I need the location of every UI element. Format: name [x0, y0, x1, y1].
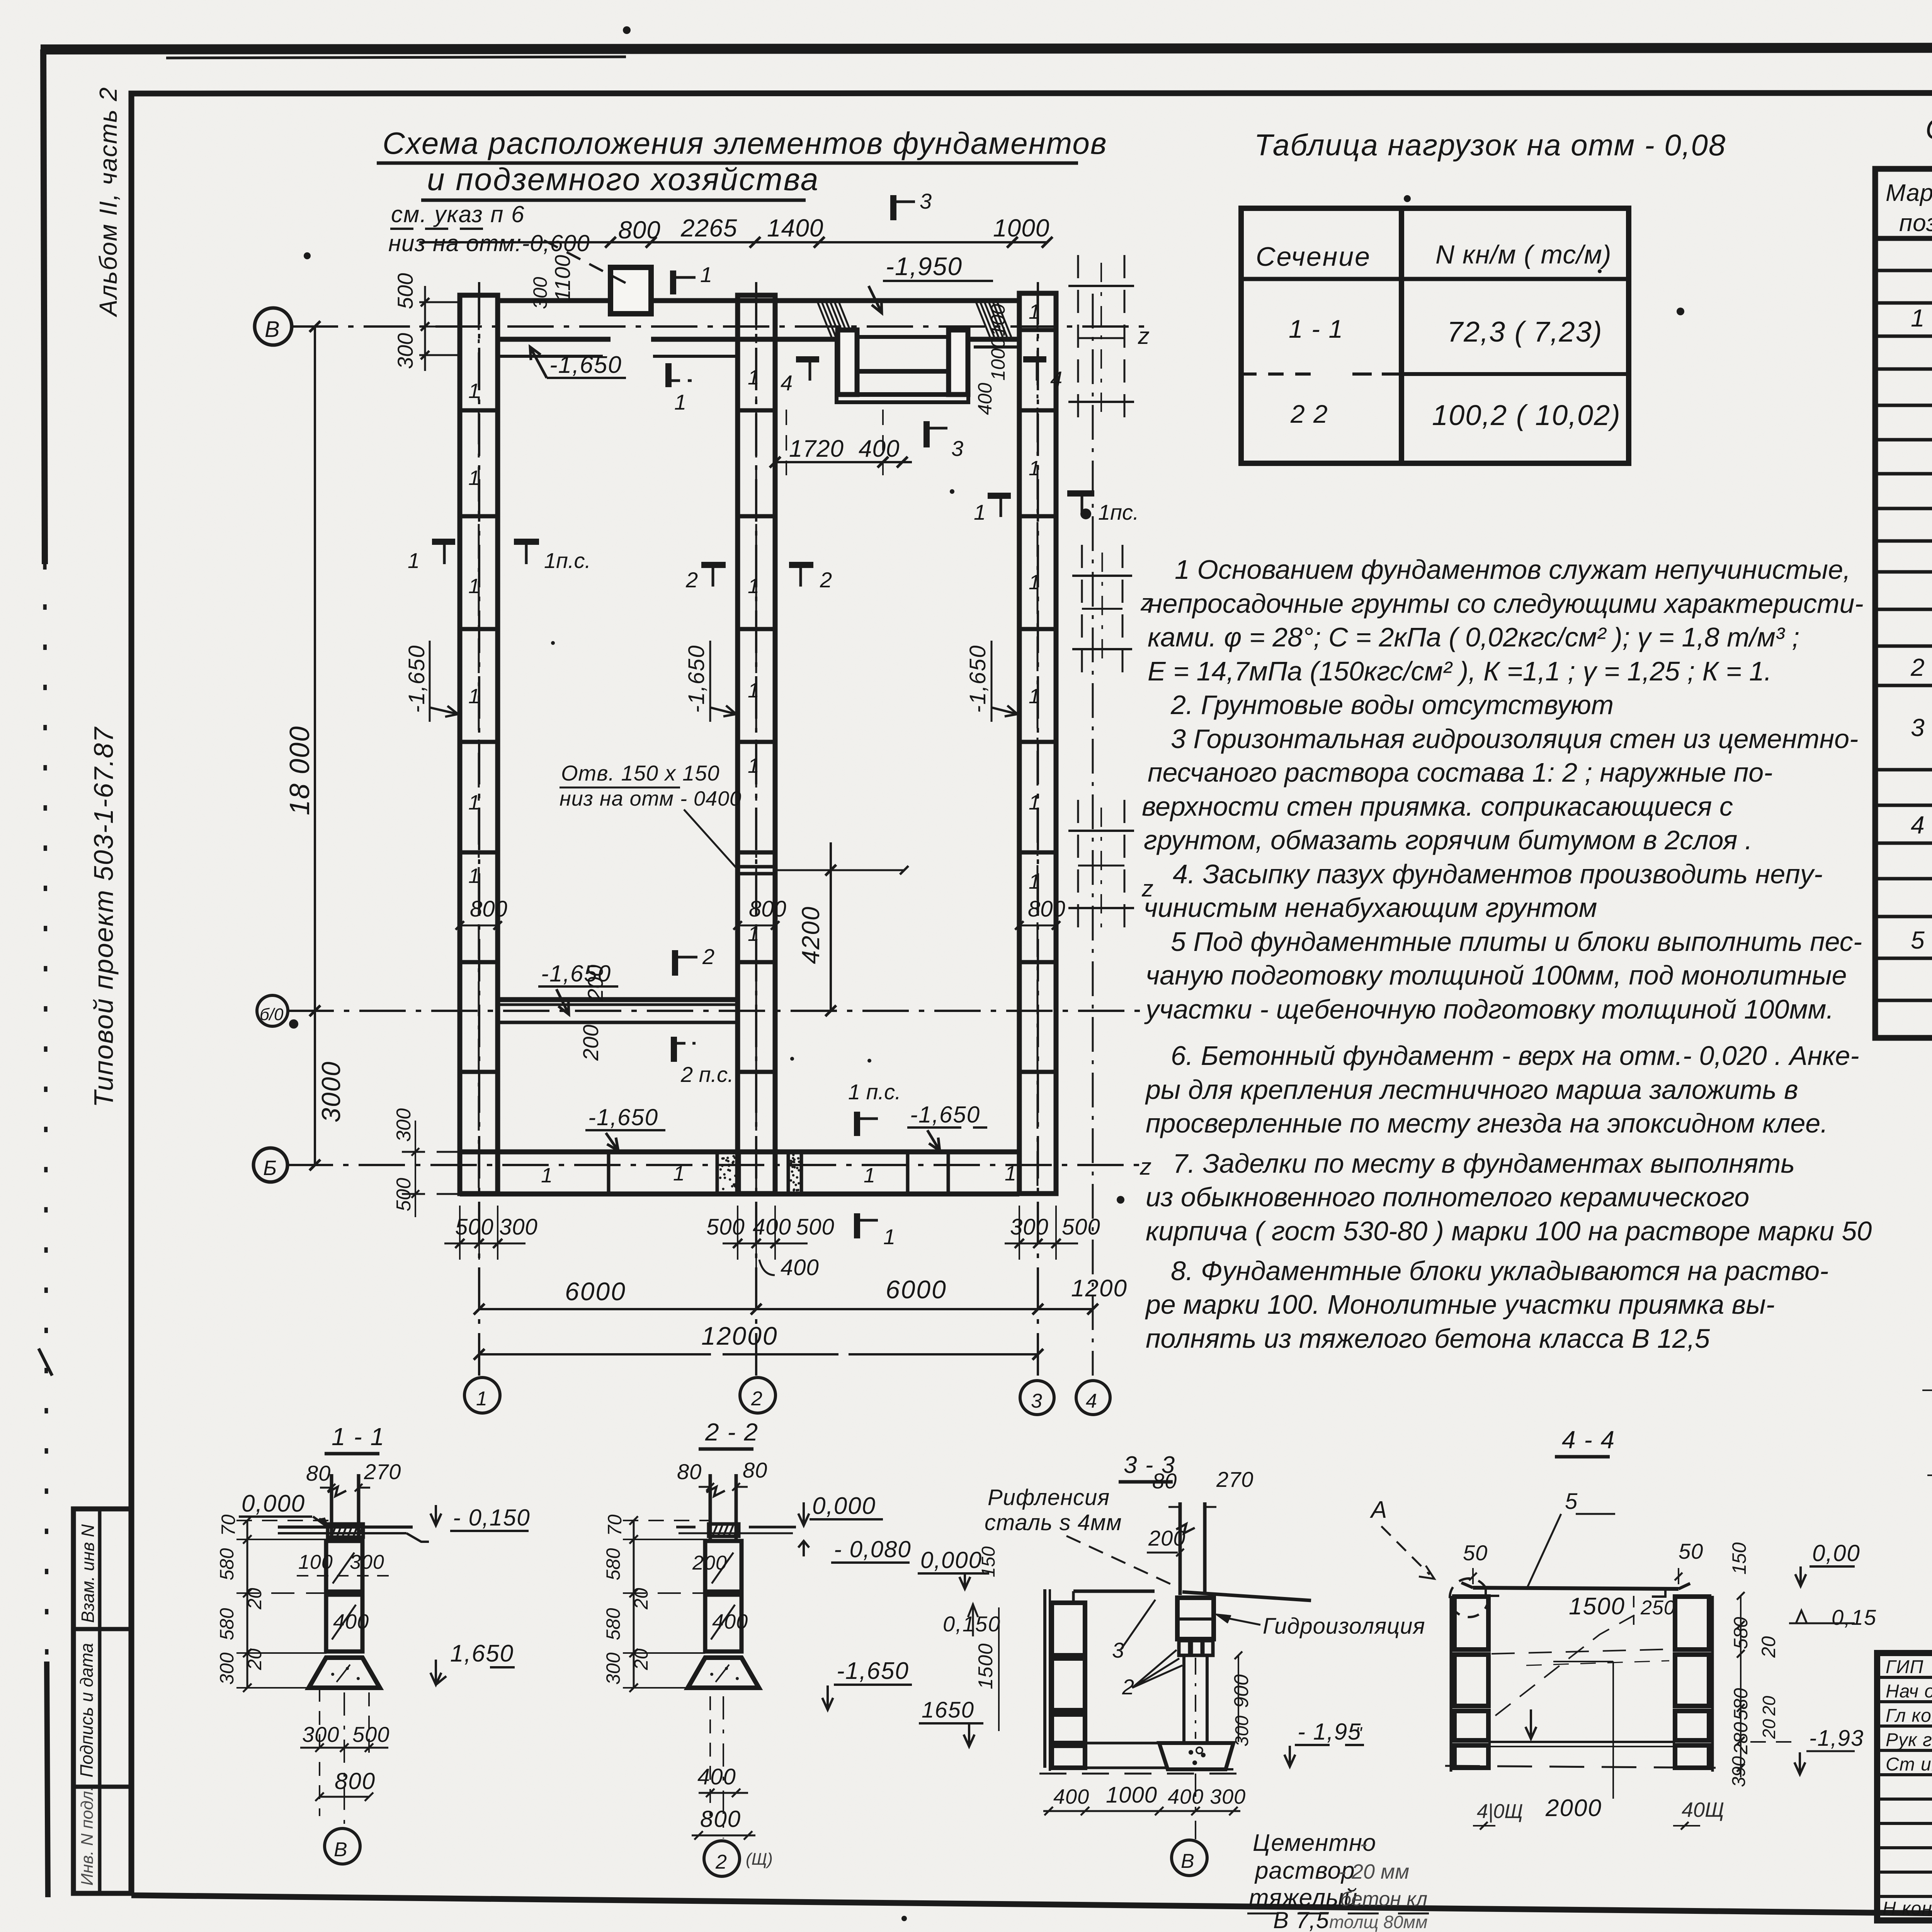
top dimension chain: [419, 237, 1053, 248]
svg-text:1: 1: [1005, 1162, 1016, 1185]
svg-text:1: 1: [541, 1164, 553, 1187]
svg-text:Подпись и дата: Подпись и дата: [77, 1643, 97, 1777]
svg-text:20: 20: [1759, 1719, 1779, 1739]
svg-text:1: 1: [1911, 304, 1925, 332]
svg-text:1: 1: [864, 1164, 875, 1187]
axis circle 3: [1020, 1381, 1054, 1415]
wall foundation strip axis 2: [738, 295, 775, 1194]
section 3-3 right pier blocks: [1177, 1598, 1214, 1639]
svg-text:3000: 3000: [316, 1061, 346, 1122]
svg-text:300: 300: [302, 1722, 339, 1747]
svg-text:500: 500: [455, 1214, 494, 1240]
svg-text:1,650: 1,650: [450, 1640, 514, 1667]
axis circle Б: [253, 1148, 287, 1182]
svg-text:1 п.с.: 1 п.с.: [848, 1080, 901, 1104]
svg-text:40Щ: 40Щ: [1682, 1798, 1724, 1821]
axis line Б: [287, 1164, 1144, 1166]
svg-text:толщ 80мм: толщ 80мм: [1329, 1912, 1427, 1932]
section 1-1 left dim stack: [236, 1516, 332, 1692]
svg-text:1: 1: [1029, 571, 1040, 594]
flag 2пс at b0: [671, 1037, 677, 1062]
hatch left of pit: [818, 302, 853, 337]
section 2-2 axis circle 2: [723, 1696, 724, 1838]
section flag 1 left pair: [432, 539, 455, 545]
svg-text:6. Бетонный фундамент - верх: 6. Бетонный фундамент - верх на отм.- 0,…: [1171, 1041, 1859, 1071]
middle band at axis б/0: [498, 1000, 738, 1022]
svg-text:1: 1: [468, 466, 480, 490]
section 3-3 axis circle В: [1195, 1774, 1196, 1839]
bottom wall band axis Б: [460, 1152, 1019, 1194]
section 3-3 bottom slab lines: [1049, 1742, 1159, 1745]
svg-text:1200: 1200: [1071, 1275, 1128, 1302]
svg-text:72,3 ( 7,23): 72,3 ( 7,23): [1447, 316, 1602, 348]
svg-text:300: 300: [216, 1652, 238, 1685]
svg-text:1: 1: [748, 679, 759, 702]
dim line 6000/6000/1200: [474, 1304, 1098, 1315]
hatch right of pit: [976, 302, 1011, 337]
svg-text:2 2: 2 2: [1290, 400, 1328, 428]
section flag 1 mid-right: [988, 493, 1011, 499]
svg-text:1650: 1650: [922, 1697, 975, 1723]
svg-text:70: 70: [218, 1514, 239, 1536]
title block signatures: [1886, 1656, 1932, 1775]
svg-text:-1,650: -1,650: [541, 961, 611, 986]
vertical dim line 18000/3000: [314, 327, 316, 1165]
svg-text:400 300: 400 300: [1168, 1785, 1246, 1808]
svg-text:200: 200: [692, 1552, 727, 1574]
dim chain under strip 2: [723, 1206, 808, 1306]
svg-text:2 п.с.: 2 п.с.: [680, 1062, 734, 1087]
svg-text:Спецификация к схеме распол: Спецификация к схеме расположения элемен…: [1925, 113, 1932, 146]
svg-text:полнять из тяжелого бетона: полнять из тяжелого бетона класса В 12,5: [1146, 1323, 1710, 1354]
svg-text:Инв. N подл.: Инв. N подл.: [78, 1786, 97, 1886]
svg-text:В: В: [265, 317, 280, 342]
dim 500/300 left of strip top: [419, 286, 460, 371]
svg-text:бетон кл: бетон кл: [1340, 1888, 1427, 1910]
svg-text:z: z: [1140, 590, 1152, 616]
svg-text:800: 800: [470, 896, 507, 922]
svg-text:-1,650: -1,650: [910, 1102, 980, 1128]
svg-text:400: 400: [1053, 1785, 1089, 1808]
section 2-2 column: [709, 1474, 712, 1540]
svg-text:Марка,: Марка,: [1886, 180, 1932, 206]
svg-text:4: 4: [1050, 367, 1062, 391]
svg-text:В: В: [1181, 1850, 1194, 1872]
svg-text:150: 150: [1728, 1542, 1750, 1575]
svg-text:400: 400: [859, 435, 900, 462]
svg-text:3: 3: [1112, 1638, 1124, 1662]
section 3-3 left wall: [1043, 1589, 1046, 1768]
svg-text:200: 200: [578, 1025, 603, 1061]
svg-text:-1,93: -1,93: [1809, 1726, 1864, 1751]
section 4-4 floor at -1,930: [1488, 1741, 1675, 1743]
svg-text:800: 800: [618, 216, 661, 244]
svg-text:N кн/м ( тс/м): N кн/м ( тс/м): [1435, 240, 1612, 269]
section 3-3 footing: [1159, 1743, 1233, 1769]
svg-text:1: 1: [408, 548, 420, 573]
section 1-1 floor ledge: [278, 1526, 413, 1529]
svg-text:-1,650: -1,650: [965, 645, 990, 713]
svg-text:Ст инж: Ст инж: [1886, 1754, 1932, 1775]
svg-text:см. указ п 6: см. указ п 6: [391, 201, 525, 227]
stray mark lower-left margin: [39, 1349, 52, 1376]
svg-text:50: 50: [1679, 1539, 1703, 1563]
svg-text:300: 300: [393, 1108, 415, 1142]
svg-text:низ на отм - 0400: низ на отм - 0400: [560, 787, 742, 810]
svg-text:580: 580: [602, 1608, 624, 1640]
svg-text:20: 20: [244, 1648, 265, 1670]
left margin stamp column: [73, 1509, 131, 1893]
load table box: [1241, 208, 1629, 463]
dim chain under strip 3: [1005, 1206, 1078, 1260]
svg-text:- 0,080: - 0,080: [834, 1536, 912, 1562]
svg-text:грунтом, обмазать горячим би: грунтом, обмазать горячим битумом в 2сло…: [1144, 825, 1752, 855]
svg-text:2265: 2265: [680, 214, 737, 242]
svg-text:4: 4: [1086, 1390, 1097, 1412]
svg-text:2: 2: [715, 1851, 727, 1873]
axis line 1: [478, 282, 480, 1376]
svg-text:80: 80: [1152, 1469, 1177, 1493]
detail A leader dashes left: [1922, 1389, 1932, 1391]
svg-text:1: 1: [468, 864, 480, 888]
axis line б/0: [287, 1010, 1144, 1012]
axis line 3: [1037, 282, 1039, 1376]
svg-text:ГИП: ГИП: [1886, 1657, 1923, 1677]
svg-text:390: 390: [1729, 1756, 1749, 1787]
svg-text:1 Основанием фундаментов служ: 1 Основанием фундаментов служат непучини…: [1175, 554, 1850, 585]
svg-text:(Щ): (Щ): [746, 1850, 773, 1869]
svg-text:300: 300: [529, 277, 551, 309]
svg-text:80: 80: [677, 1459, 702, 1484]
svg-text:4. Засыпку пазух фундаментов: 4. Засыпку пазух фундаментов производить…: [1173, 859, 1823, 889]
svg-text:чаную подготовку толщиной 1: чаную подготовку толщиной 100мм, под мон…: [1146, 960, 1847, 990]
title block outer: [1877, 1653, 1932, 1920]
svg-text:- 0,150: - 0,150: [453, 1505, 531, 1531]
section flag 2 left: [701, 562, 726, 568]
section flag 4 left: [796, 356, 819, 362]
svg-text:1: 1: [748, 754, 759, 777]
svg-text:300: 300: [499, 1214, 538, 1240]
section 4-4 leader line to 2000: [1612, 1662, 1614, 1799]
svg-text:Сечение: Сечение: [1256, 241, 1371, 272]
svg-text:300: 300: [393, 333, 417, 369]
svg-text:1400: 1400: [767, 214, 823, 242]
svg-text:1: 1: [673, 1162, 685, 1185]
svg-text:-1,650: -1,650: [404, 645, 429, 713]
svg-text:0,000: 0,000: [812, 1493, 876, 1519]
svg-text:500: 500: [1062, 1214, 1100, 1240]
svg-text:3: 3: [1911, 714, 1925, 742]
svg-text:Рифленсия: Рифленсия: [988, 1485, 1110, 1510]
svg-text:300: 300: [350, 1551, 384, 1573]
svg-text:Гл констр: Гл констр: [1886, 1706, 1932, 1726]
monolithic stipple segments in band: [719, 1154, 800, 1192]
svg-text:800: 800: [749, 896, 786, 922]
svg-text:50: 50: [1463, 1541, 1488, 1565]
axis circle 2: [740, 1378, 776, 1413]
section 1-1 bottom dims 300 500: [319, 1688, 320, 1754]
svg-text:400: 400: [712, 1610, 748, 1633]
svg-text:20: 20: [630, 1648, 652, 1670]
svg-text:z: z: [1139, 1154, 1151, 1180]
svg-text:400: 400: [781, 1255, 819, 1280]
section flag 1пс left pair: [514, 539, 539, 545]
svg-text:Отв. 150 х 150: Отв. 150 х 150: [561, 761, 720, 785]
svg-text:1: 1: [468, 685, 480, 708]
svg-text:18 000: 18 000: [284, 726, 315, 815]
axis circle 4: [1076, 1381, 1110, 1415]
svg-text:1: 1: [674, 390, 686, 414]
svg-text:270: 270: [1216, 1467, 1253, 1492]
svg-text:580: 580: [602, 1548, 624, 1580]
svg-text:-1,650: -1,650: [837, 1658, 909, 1684]
svg-text:чинистым ненабухающим грунто: чинистым ненабухающим грунтом: [1144, 893, 1597, 923]
svg-text:1000: 1000: [993, 214, 1049, 242]
svg-text:6000: 6000: [565, 1277, 626, 1306]
svg-text:70: 70: [604, 1514, 626, 1536]
svg-text:Типовой проект 503-1-67.87: Типовой проект 503-1-67.87: [88, 726, 119, 1107]
svg-text:1500: 1500: [975, 1643, 997, 1689]
svg-text:-: -: [1360, 1832, 1367, 1855]
section flag 1 top: [670, 270, 676, 294]
svg-text:-1,650: -1,650: [588, 1104, 658, 1130]
svg-text:1: 1: [700, 262, 712, 287]
svg-text:500: 500: [706, 1214, 745, 1240]
svg-text:80: 80: [306, 1461, 331, 1485]
sheet outer border top: [41, 47, 1932, 49]
svg-text:150: 150: [978, 1546, 999, 1577]
svg-text:непросадочные грунты со следую: непросадочные грунты со следующими харак…: [1148, 588, 1864, 619]
svg-text:1000: 1000: [987, 338, 1009, 381]
svg-text:400: 400: [697, 1764, 736, 1789]
svg-text:1: 1: [1029, 870, 1040, 893]
svg-text:Альбом II, часть 2: Альбом II, часть 2: [94, 87, 122, 318]
svg-text:А: А: [1369, 1497, 1387, 1523]
section 4-4 left wall: [1450, 1596, 1452, 1772]
svg-text:8. Фундаментные блоки уклады: 8. Фундаментные блоки укладываются на ра…: [1171, 1256, 1828, 1286]
svg-text:-1,950: -1,950: [886, 252, 963, 281]
svg-text:400: 400: [974, 383, 996, 415]
svg-text:2000: 2000: [1545, 1795, 1602, 1821]
flag 2 at b0: [672, 950, 678, 976]
svg-text:20: 20: [1758, 1636, 1779, 1658]
svg-text:и подземного хозяйства: и подземного хозяйства: [427, 162, 819, 197]
svg-text:Нач отд: Нач отд: [1886, 1681, 1932, 1702]
svg-text:Таблица нагрузок на отм - 0,0: Таблица нагрузок на отм - 0,08: [1254, 128, 1726, 162]
section 1-1 blocks: [326, 1541, 362, 1592]
svg-text:80: 80: [743, 1458, 767, 1482]
svg-text:1500: 1500: [1569, 1593, 1625, 1620]
svg-text:1: 1: [883, 1225, 895, 1249]
svg-text:Цементно: Цементно: [1253, 1830, 1376, 1856]
svg-text:20: 20: [1759, 1696, 1779, 1716]
section 2-2 floor: [676, 1526, 696, 1529]
svg-text:участки - щебеночную подгото: участки - щебеночную подготовку толщиной…: [1144, 994, 1834, 1024]
section flag 4 right: [1023, 356, 1046, 362]
svg-text:3: 3: [920, 189, 932, 213]
top wall band axis В: [498, 301, 1019, 356]
axis circle 1: [464, 1378, 500, 1413]
svg-text:900: 900: [1230, 1674, 1253, 1708]
svg-text:2. Грунтовые воды отсутству: 2. Грунтовые воды отсутствуют: [1170, 690, 1614, 720]
axis circle В: [255, 308, 292, 345]
svg-text:Рук гр: Рук гр: [1886, 1730, 1932, 1750]
svg-text:100,2 ( 10,02): 100,2 ( 10,02): [1432, 399, 1621, 431]
svg-text:300: 300: [602, 1652, 624, 1685]
svg-text:0,000: 0,000: [241, 1490, 305, 1517]
wall opening 800 at axis В: [611, 267, 651, 314]
svg-text:-1,650: -1,650: [684, 645, 709, 713]
svg-text:20: 20: [630, 1588, 652, 1610]
svg-text:2: 2: [685, 568, 698, 592]
svg-text:б/0: б/0: [260, 1005, 284, 1024]
svg-text:4|0Щ: 4|0Щ: [1477, 1800, 1523, 1823]
section flag 1 lower: [665, 363, 672, 387]
svg-text:400: 400: [753, 1214, 791, 1240]
svg-text:3: 3: [951, 436, 963, 461]
svg-text:800: 800: [700, 1806, 741, 1832]
section flag 3 mid: [923, 421, 930, 447]
svg-text:": ": [1355, 1723, 1363, 1743]
svg-text:580: 580: [216, 1608, 238, 1640]
notes paragraph: [1142, 554, 1872, 1354]
svg-text:100: 100: [298, 1551, 333, 1573]
svg-text:Е = 14,7мПа (150кгс/см² ), К: Е = 14,7мПа (150кгс/см² ), К =1,1 ; γ = …: [1148, 656, 1772, 686]
axis line В: [292, 325, 1151, 328]
svg-text:Б: Б: [263, 1156, 277, 1180]
svg-text:1: 1: [476, 1388, 487, 1410]
section 4-4 pit top line: [1473, 1588, 1679, 1589]
svg-text:1: 1: [1029, 685, 1040, 708]
svg-text:4: 4: [781, 371, 793, 395]
svg-text:Взам. инв N: Взам. инв N: [78, 1524, 98, 1623]
section 2-2 left dim stack: [623, 1516, 711, 1692]
svg-text:2: 2: [702, 944, 714, 969]
section flag 3 top: [890, 195, 896, 220]
svg-text:1: 1: [748, 575, 759, 598]
section 3-3 pit floor: [1073, 1590, 1155, 1593]
svg-text:В 7,5: В 7,5: [1273, 1907, 1329, 1932]
svg-text:2: 2: [1910, 653, 1925, 681]
svg-text:- 20 мм: - 20 мм: [1339, 1860, 1409, 1883]
svg-text:из обыкновенного полнотелого: из обыкновенного полнотелого керамическо…: [1146, 1182, 1749, 1212]
svg-text:4 - 4: 4 - 4: [1562, 1426, 1615, 1454]
svg-text:250: 250: [1640, 1597, 1675, 1619]
svg-text:1: 1: [1029, 791, 1040, 814]
svg-text:1п.с.: 1п.с.: [544, 548, 591, 573]
svg-text:270: 270: [364, 1459, 401, 1484]
svg-text:580: 580: [216, 1548, 238, 1580]
svg-text:12000: 12000: [701, 1321, 778, 1350]
section 2-2 blocks: [705, 1541, 742, 1592]
svg-text:1: 1: [974, 500, 986, 524]
svg-text:800: 800: [335, 1768, 376, 1794]
svg-text:0,000: 0,000: [920, 1547, 982, 1573]
svg-text:100: 100: [987, 304, 1009, 336]
svg-text:1пс.: 1пс.: [1098, 500, 1139, 524]
section 3-3 column: [1179, 1502, 1182, 1595]
section 3-3 left wall blocks: [1052, 1603, 1085, 1655]
svg-text:ры для крепления лестничног: ры для крепления лестничного марша залож…: [1145, 1075, 1798, 1105]
svg-text:- 1,95: - 1,95: [1298, 1719, 1361, 1745]
svg-text:Схема расположения элементов: Схема расположения элементов фундаментов: [383, 126, 1107, 160]
svg-text:500: 500: [352, 1722, 389, 1747]
svg-text:2: 2: [751, 1388, 762, 1410]
svg-text:1 - 1: 1 - 1: [332, 1423, 385, 1451]
axis circle б/0: [257, 995, 288, 1026]
svg-text:поз.: поз.: [1899, 210, 1932, 236]
svg-text:400: 400: [333, 1610, 369, 1633]
svg-text:1 - 1: 1 - 1: [1289, 315, 1344, 343]
svg-text:20: 20: [244, 1588, 265, 1610]
dim line at Отв: [775, 869, 904, 871]
svg-text:800: 800: [1028, 896, 1065, 922]
svg-text:200: 200: [1148, 1526, 1185, 1550]
dim 4200 vertical: [830, 842, 832, 1011]
dim chain under strip 1: [444, 1206, 526, 1260]
section 4-4 right wall: [1675, 1597, 1709, 1650]
svg-text:5: 5: [1911, 926, 1925, 954]
spec table grid: [1875, 169, 1932, 1038]
svg-text:1: 1: [468, 379, 480, 403]
svg-text:Н контр: Н контр: [1883, 1898, 1932, 1919]
section 4-4 pit inner construction lines: [1492, 1649, 1673, 1654]
pit приямок walls: [837, 330, 968, 402]
svg-text:В: В: [334, 1838, 347, 1861]
svg-text:ками. φ = 28°; С = 2кПа ( 0,0: ками. φ = 28°; С = 2кПа ( 0,02кгс/см² );…: [1148, 622, 1799, 652]
section flag 2 right: [789, 562, 813, 568]
svg-text:6000: 6000: [886, 1275, 947, 1304]
svg-text:песчаного раствора состава: песчаного раствора состава 1: 2 ; наружн…: [1148, 757, 1773, 787]
svg-text:500: 500: [796, 1214, 835, 1240]
svg-text:3 Горизонтальная гидроизоляц: 3 Горизонтальная гидроизоляция стен из ц…: [1171, 724, 1858, 754]
channel symbol right mid: [1072, 545, 1132, 672]
svg-text:3: 3: [1031, 1390, 1042, 1412]
svg-text:z: z: [1141, 876, 1153, 901]
svg-text:z: z: [1138, 323, 1150, 349]
wall foundation strip axis 1: [460, 295, 498, 1194]
svg-text:0,15: 0,15: [1832, 1605, 1877, 1629]
svg-text:просверленные по месту гнез: просверленные по месту гнезда на эпоксид…: [1146, 1108, 1828, 1138]
axis line 2: [755, 282, 757, 1376]
wall foundation strip axis 3: [1019, 293, 1056, 1194]
svg-text:1000: 1000: [1106, 1782, 1157, 1808]
svg-text:0,150: 0,150: [943, 1612, 1001, 1636]
svg-text:1: 1: [748, 366, 759, 389]
svg-text:300: 300: [1010, 1214, 1049, 1240]
svg-text:Гидроизоляция: Гидроизоляция: [1263, 1614, 1425, 1639]
section flag 1пс mid-right: [1067, 490, 1094, 497]
svg-text:1: 1: [468, 575, 480, 598]
channel symbol right bottom: [1068, 800, 1134, 931]
svg-text:1720: 1720: [789, 435, 844, 462]
dim line 12000: [474, 1349, 1043, 1360]
svg-text:1100: 1100: [550, 255, 575, 301]
svg-text:4: 4: [1911, 811, 1925, 839]
flag 1 below band Б: [854, 1213, 860, 1238]
dim 1720 400: [770, 410, 912, 475]
channel symbol right top: [1068, 255, 1134, 425]
sheet outer border left: [43, 49, 45, 564]
svg-text:500: 500: [393, 273, 417, 309]
svg-text:5: 5: [1565, 1489, 1578, 1514]
svg-text:5 Под фундаментные плиты и бл: 5 Под фундаментные плиты и блоки выполни…: [1171, 927, 1862, 957]
svg-text:1: 1: [1029, 300, 1040, 323]
svg-text:-1,650: -1,650: [549, 352, 622, 378]
section 1-1 axis circle В: [344, 1692, 345, 1828]
svg-text:верхности стен приямка. соп: верхности стен приямка. соприкасающиеся …: [1142, 791, 1733, 821]
svg-text:1: 1: [1029, 457, 1040, 480]
